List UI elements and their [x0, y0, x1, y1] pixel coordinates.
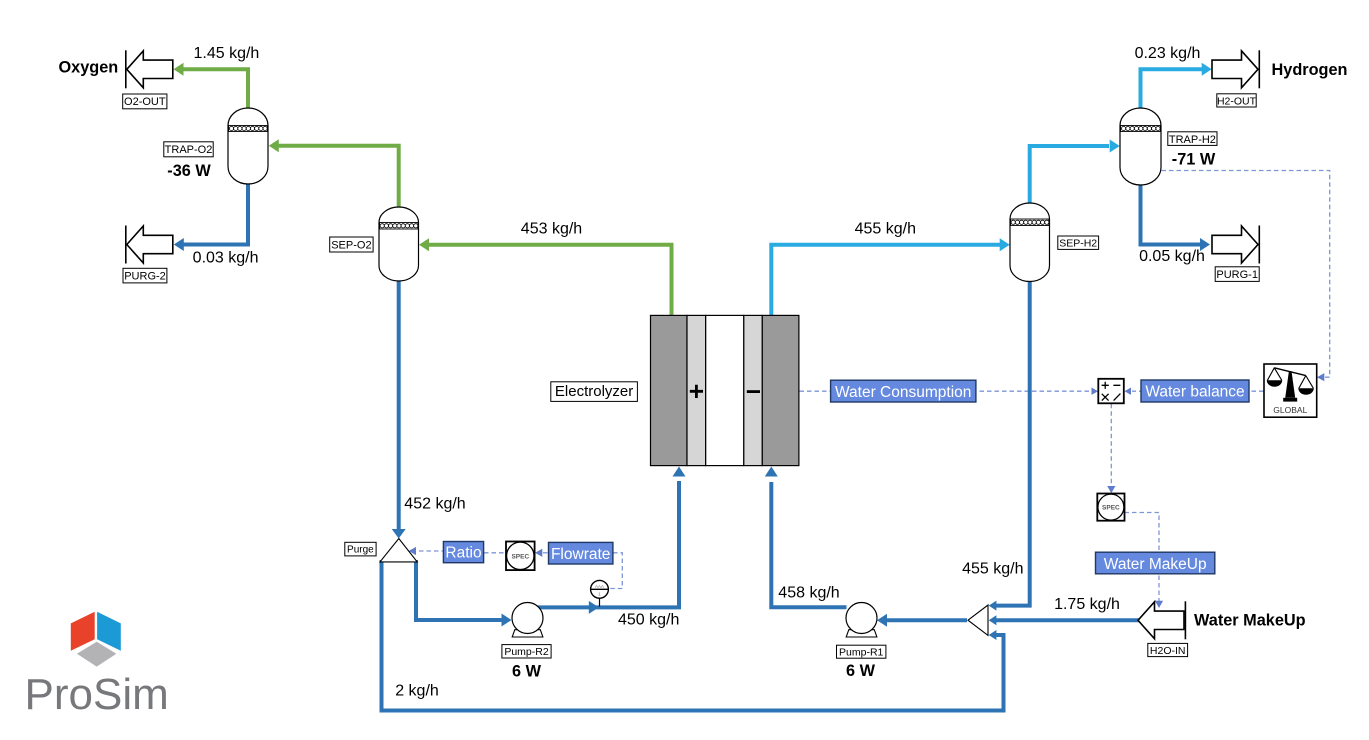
svg-text:Purge: Purge	[347, 545, 374, 556]
wire dashed: GLOBAL to operator (Water balance)	[1125, 388, 1264, 395]
operator block (+ - x /)	[1098, 379, 1124, 404]
svg-text:PURG-1: PURG-1	[1216, 269, 1258, 281]
stream 1.75 kg/h: H2O-IN to mixer	[989, 615, 1139, 625]
stream symbol H2O-IN	[1138, 601, 1185, 639]
stream symbol O2-OUT	[126, 50, 173, 88]
stream: SEP-H2 top to TRAP-H2	[1030, 140, 1120, 205]
svg-text:450 kg/h: 450 kg/h	[618, 612, 679, 629]
svg-text:0.05 kg/h: 0.05 kg/h	[1139, 248, 1205, 265]
svg-text:AAA: AAA	[595, 584, 604, 589]
label Pump-R2	[502, 645, 551, 658]
svg-text:GLOBAL: GLOBAL	[1273, 405, 1307, 415]
svg-text:Flowrate: Flowrate	[551, 546, 610, 563]
optimizer GLOBAL	[1264, 364, 1317, 417]
svg-text:H2-OUT: H2-OUT	[1217, 95, 1257, 107]
svg-text:Pump-R2: Pump-R2	[504, 646, 549, 658]
vessel SEP-O2	[379, 207, 419, 281]
stream 455 kg/h: SEP-H2 bottom to mixer	[989, 281, 1030, 611]
stream: splitter to Pump-R2	[416, 560, 512, 627]
svg-text:1: 1	[598, 592, 601, 598]
svg-text:0.03 kg/h: 0.03 kg/h	[193, 249, 259, 266]
ProSim logo cube gray base	[77, 642, 117, 667]
svg-text:0.23 kg/h: 0.23 kg/h	[1135, 45, 1201, 62]
svg-text:Water Consumption: Water Consumption	[835, 384, 971, 401]
vessel TRAP-O2	[228, 108, 268, 184]
label Pump-R1	[837, 645, 886, 658]
svg-text:-71 W: -71 W	[1172, 150, 1216, 168]
svg-text:Water balance: Water balance	[1145, 384, 1244, 401]
stream 0.23 kg/h: TRAP-H2 top to H2-OUT	[1141, 63, 1212, 109]
label SEP-O2	[330, 237, 373, 252]
label H2O-IN	[1148, 643, 1188, 656]
svg-text:SPEC: SPEC	[1102, 505, 1120, 512]
stream: SEP-O2 top to TRAP-O2	[269, 139, 399, 208]
label Water MakeUp (controller)	[1096, 552, 1215, 574]
svg-text:TRAP-O2: TRAP-O2	[165, 144, 213, 156]
constraint SPEC2 (Water MakeUp)	[1097, 494, 1124, 521]
svg-text:458 kg/h: 458 kg/h	[778, 584, 839, 601]
label Water Consumption	[831, 380, 976, 402]
label Purge	[345, 542, 376, 556]
label PURG-1	[1215, 267, 1259, 282]
wire dashed: Flowrate to flow measurement	[609, 553, 622, 589]
label Flowrate	[549, 542, 613, 564]
pump Pump-R2	[512, 603, 543, 638]
wire dashed: electrolyzer to operator (Water Consumption)	[800, 388, 1099, 395]
svg-text:Oxygen: Oxygen	[59, 59, 119, 77]
svg-text:1.45 kg/h: 1.45 kg/h	[193, 45, 259, 62]
svg-text:Ratio: Ratio	[445, 545, 481, 562]
splitter Purge	[380, 539, 417, 562]
stream: mixer to Pump-R1	[877, 614, 967, 627]
stream 0.03 kg/h: TRAP-O2 bottom to PURG-2	[174, 183, 248, 251]
label PURG-2	[123, 268, 167, 283]
label Ratio	[443, 542, 483, 563]
label TRAP-H2	[1168, 132, 1217, 146]
stream 1.45 kg/h: TRAP-O2 top to O2-OUT	[174, 63, 249, 109]
wire dashed: TRAP-H2 to GLOBAL	[1162, 171, 1330, 382]
svg-text:1.75 kg/h: 1.75 kg/h	[1054, 596, 1120, 613]
svg-text:Water MakeUp: Water MakeUp	[1194, 611, 1306, 629]
svg-text:453 kg/h: 453 kg/h	[521, 220, 582, 237]
stream 450 kg/h: Pump-R2 to electrolyzer anode feed	[537, 467, 686, 614]
label H2-OUT	[1217, 94, 1257, 108]
svg-text:PURG-2: PURG-2	[124, 270, 166, 282]
svg-text:Electrolyzer: Electrolyzer	[555, 383, 633, 400]
stream 452 kg/h: SEP-O2 bottom to Purge splitter	[392, 280, 406, 539]
pump Pump-R1	[846, 603, 877, 638]
stream 453 kg/h: electrolyzer to SEP-O2	[419, 238, 672, 315]
vessel TRAP-H2	[1120, 108, 1161, 185]
svg-text:Water MakeUp: Water MakeUp	[1104, 556, 1207, 573]
svg-text:Hydrogen: Hydrogen	[1272, 61, 1348, 79]
wire dashed: operator to SPEC2	[1107, 404, 1115, 494]
svg-text:6 W: 6 W	[846, 662, 876, 680]
stream symbol PURG-2	[126, 226, 173, 264]
svg-text:452 kg/h: 452 kg/h	[404, 495, 465, 512]
svg-text:6 W: 6 W	[512, 663, 542, 681]
wire dashed: Ratio to SPEC	[484, 552, 506, 554]
svg-text:455 kg/h: 455 kg/h	[962, 560, 1023, 577]
stream 455 kg/h: electrolyzer to SEP-H2	[771, 238, 1009, 315]
svg-text:SPEC: SPEC	[511, 553, 529, 560]
electrolyzer unit	[651, 315, 799, 465]
stream 0.05 kg/h: TRAP-H2 bottom to PURG-1	[1141, 184, 1211, 251]
stream 2 kg/h: splitter purge recycle to mixer	[382, 560, 1004, 711]
wire dashed: splitter to Ratio	[409, 547, 443, 555]
svg-text:TRAP-H2: TRAP-H2	[1169, 134, 1216, 146]
label Water balance	[1141, 380, 1249, 402]
ProSim logo cube red face	[71, 612, 95, 651]
vessel SEP-H2	[1010, 203, 1050, 282]
stream symbol H2-OUT	[1212, 50, 1259, 88]
svg-text:SEP-O2: SEP-O2	[331, 239, 371, 251]
svg-text:Pump-R1: Pump-R1	[839, 646, 884, 658]
mixer	[968, 605, 988, 635]
constraint SPEC (Flowrate/Ratio)	[506, 542, 535, 571]
svg-text:ProSim: ProSim	[25, 670, 169, 719]
wire dashed: SPEC2 to H2O-IN (Water MakeUp)	[1125, 513, 1164, 609]
svg-text:O2-OUT: O2-OUT	[124, 96, 166, 108]
wire dashed: Flowrate to SPEC	[535, 549, 549, 557]
label O2-OUT	[123, 94, 167, 109]
label TRAP-O2	[164, 142, 213, 157]
stream symbol PURG-1	[1212, 226, 1259, 264]
stream 458 kg/h: Pump-R1 to electrolyzer cathode feed	[765, 467, 847, 608]
flow measurement device on 450 kg/h stream	[591, 580, 609, 606]
label SEP-H2	[1058, 236, 1099, 250]
svg-text:SEP-H2: SEP-H2	[1059, 238, 1097, 250]
ProSim logo cube blue face	[97, 612, 121, 651]
label Electrolyzer	[551, 382, 638, 402]
svg-text:2 kg/h: 2 kg/h	[395, 683, 439, 700]
svg-text:H2O-IN: H2O-IN	[1150, 645, 1186, 657]
svg-text:-36 W: -36 W	[167, 162, 211, 180]
svg-text:455 kg/h: 455 kg/h	[855, 220, 916, 237]
